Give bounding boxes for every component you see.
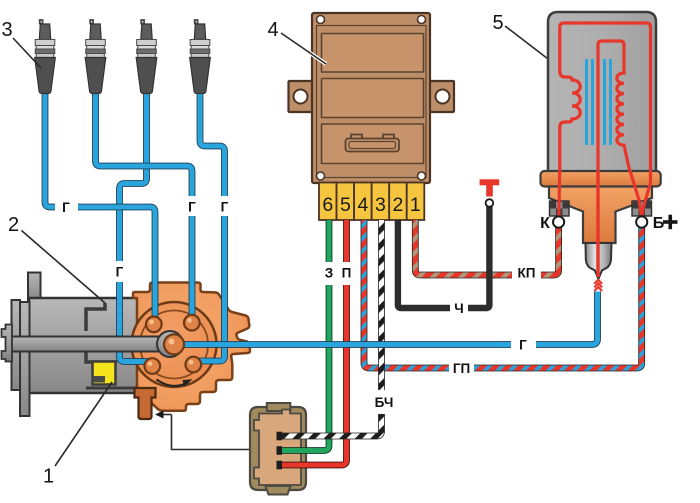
distributor body seam line [86, 387, 150, 390]
svg-text:Г: Г [188, 200, 196, 215]
module ear holes [294, 90, 308, 104]
connector inner face [254, 410, 301, 486]
coil terminal К node [553, 216, 564, 227]
spark gap chevrons [594, 280, 602, 291]
rotation arrow [157, 380, 189, 386]
wire КП terminal 1 to coil К (red-tan striped) [415, 220, 558, 275]
connector housing (to distributor) [250, 407, 306, 490]
wire П terminal 5 to connector bottom pin (red) [282, 220, 347, 465]
svg-text:К: К [540, 215, 550, 232]
item 2 leader line [22, 231, 106, 304]
wire labels [62, 200, 535, 411]
svg-text:5: 5 [492, 12, 503, 34]
ignition module label 4 leader [281, 33, 326, 64]
wire ГП terminal 4 to coil Б+ (red-blue striped) [364, 220, 642, 368]
wire Ч terminal 2 to power tap (black) [398, 206, 490, 308]
module mounting ear left [289, 81, 319, 112]
wire label gaps (white) [55, 196, 541, 414]
svg-text:З: З [325, 266, 333, 281]
module panel 2 [322, 79, 424, 118]
wire Г spark plug 2 to distributor top-right post [96, 92, 193, 320]
svg-text:3: 3 [375, 194, 386, 216]
module panel 1 [322, 34, 424, 73]
svg-text:Г: Г [519, 338, 527, 353]
coil flange [541, 171, 661, 187]
svg-text:1: 1 [43, 466, 54, 488]
wire Г spark plug 3 to distributor lower-left post [120, 92, 151, 362]
distributor internal contour lower [86, 351, 117, 362]
label 3 leader line [13, 38, 41, 68]
coil base with HV tower [549, 187, 652, 244]
coil terminal stack left [550, 201, 570, 220]
distributor cap center electrode [157, 331, 183, 357]
distributor top post [28, 273, 41, 303]
power tap T symbol (red) [480, 179, 500, 196]
distributor cap post bottom-right [186, 357, 202, 373]
wire З terminal 6 to connector middle pin (green) [282, 220, 329, 451]
coil secondary winding circuit (red) [598, 41, 630, 277]
ignition module U4 body [312, 13, 430, 183]
distributor internal contour upper [86, 303, 105, 331]
module panel 3 [322, 124, 424, 164]
ignition coil body [548, 12, 656, 172]
item 1 leader line [55, 382, 112, 466]
contact breaker notch [93, 376, 106, 383]
distributor left plate outer [20, 302, 30, 416]
distributor body [29, 298, 138, 393]
spark plug 1 [35, 20, 56, 94]
distributor clamp bracket [135, 388, 156, 419]
wire Г spark plug 1 to distributor top-left post [45, 92, 155, 323]
spark plug 3 [136, 20, 157, 94]
coil HV tower tip (metal) [586, 243, 612, 279]
svg-text:Ч: Ч [454, 301, 464, 316]
distributor shaft end tab [2, 325, 13, 362]
svg-text:2: 2 [8, 214, 19, 236]
power tap node circle [486, 199, 494, 207]
module terminal block [319, 183, 337, 221]
svg-text:4: 4 [357, 194, 368, 216]
distributor cap inner ring [140, 311, 208, 379]
svg-text:П: П [342, 266, 352, 281]
distributor left plate middle [12, 300, 21, 390]
svg-text:5: 5 [340, 194, 351, 216]
coil primary winding circuit (red) [559, 23, 651, 214]
HV center wire Г from coil to distributor (blue) [183, 292, 598, 345]
svg-text:БЧ: БЧ [375, 395, 394, 410]
connector leader with arrow [160, 414, 172, 416]
module screw holes [317, 16, 325, 24]
distributor cap post top-right [184, 315, 200, 331]
HV red conductor in tower [596, 170, 599, 277]
wire Г spark plug 4 to distributor lower-right post [196, 92, 225, 361]
svg-text:Г: Г [221, 200, 229, 215]
connector pin 3 (bottom) [277, 461, 283, 470]
connector pin 1 (top) [277, 432, 283, 441]
svg-text:2: 2 [392, 194, 403, 216]
distributor cap post top-left [146, 317, 162, 333]
distributor cap (orange gear body) [133, 283, 250, 411]
svg-text:1: 1 [410, 194, 421, 216]
terminal pin numbers 6 5 4 3 2 1 [322, 194, 420, 216]
coil terminal stack right [632, 201, 652, 220]
ignition coil label 5 leader [505, 26, 552, 62]
distributor cap post bottom-left [145, 358, 161, 374]
wire БЧ terminal 3 to connector top pin (black-white striped) [282, 220, 382, 436]
red leads through terminal stacks [557, 170, 561, 217]
svg-text:Г: Г [116, 265, 124, 280]
contact breaker (yellow, item 1) [93, 362, 116, 385]
svg-text:Г: Г [62, 200, 70, 215]
module mounting ear right [425, 81, 455, 112]
spark plug 4 [190, 20, 211, 94]
spark plug 2 [85, 20, 106, 94]
svg-text:ГП: ГП [453, 361, 470, 376]
module connector tab [351, 135, 362, 141]
svg-text:6: 6 [322, 194, 333, 216]
svg-text:3: 3 [1, 19, 12, 41]
distributor shaft [8, 337, 176, 352]
coil terminal Б+ node [636, 216, 647, 227]
svg-text:4: 4 [267, 19, 278, 41]
connector pin 2 (middle) [277, 446, 283, 455]
coil core laminations (blue) [587, 59, 611, 145]
svg-text:Б: Б [653, 215, 665, 232]
svg-text:КП: КП [518, 266, 536, 281]
distributor cap face circle [132, 302, 217, 387]
